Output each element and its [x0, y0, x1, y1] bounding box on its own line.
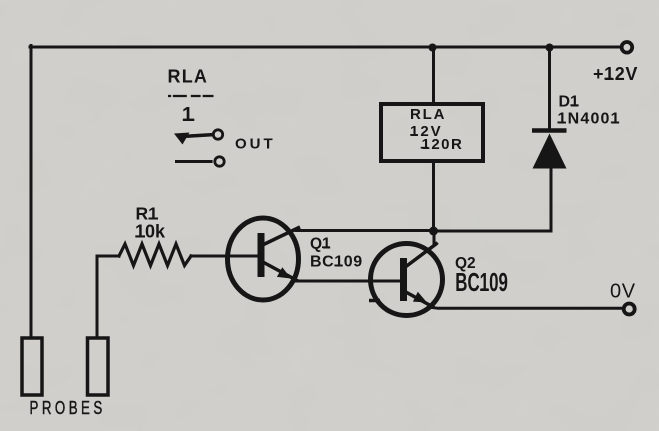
svg-text:PROBES: PROBES [30, 398, 106, 419]
svg-text:RLA: RLA [410, 106, 446, 123]
contact moving arm [182, 135, 213, 137]
wire collector node to Q2 collector [433, 231, 436, 245]
wire Q1 collector to junction node [296, 229, 434, 232]
wire collector node to diode anode [434, 168, 552, 231]
svg-text:1: 1 [182, 104, 193, 126]
wire Q2 emitter to 0V terminal [432, 306, 622, 310]
contact arm terminal [213, 130, 222, 139]
contact fixed throw [175, 160, 213, 163]
svg-text:OUT: OUT [235, 136, 276, 153]
wire top rail to relay coil [432, 47, 435, 104]
terminal +12V [622, 42, 633, 53]
wire top rail +12V [30, 46, 620, 49]
wire top rail to diode cathode [548, 47, 551, 131]
relay contact RLA1 [168, 67, 225, 167]
relay coil RLA [381, 104, 483, 161]
terminal 0V [624, 304, 635, 315]
node junction on +12V rail at diode [546, 44, 554, 52]
svg-text:10k: 10k [135, 222, 166, 242]
svg-text:RLA: RLA [168, 67, 209, 87]
wire relay coil to collector node [432, 161, 435, 231]
svg-text:BC109: BC109 [310, 254, 363, 271]
wire R1 to Q1 base [191, 255, 259, 258]
wire Q1 emitter to Q2 base [294, 280, 401, 283]
contact fixed terminal [215, 157, 224, 166]
transistor Q1 [228, 218, 301, 300]
svg-text:0V: 0V [610, 281, 636, 303]
resistor R1 [119, 244, 191, 266]
diode D1 [532, 131, 567, 169]
svg-text:Q1: Q1 [310, 235, 331, 252]
svg-text:D1: D1 [559, 93, 580, 110]
svg-text:R1: R1 [136, 204, 159, 224]
node junction collector node [429, 227, 438, 236]
svg-text:1N4001: 1N4001 [558, 111, 621, 128]
probe 2 [88, 338, 109, 395]
svg-text:120R: 120R [422, 136, 464, 153]
transistor Q2 [369, 243, 443, 316]
wire probe 2 to resistor [97, 256, 119, 338]
probe 1 [22, 338, 42, 395]
svg-text:BC109: BC109 [455, 267, 508, 297]
wire left vertical from top rail to probe 1 [30, 46, 33, 339]
divider dashed line [168, 95, 213, 97]
node junction on +12V rail at relay [429, 44, 437, 52]
svg-text:+12V: +12V [593, 64, 638, 84]
